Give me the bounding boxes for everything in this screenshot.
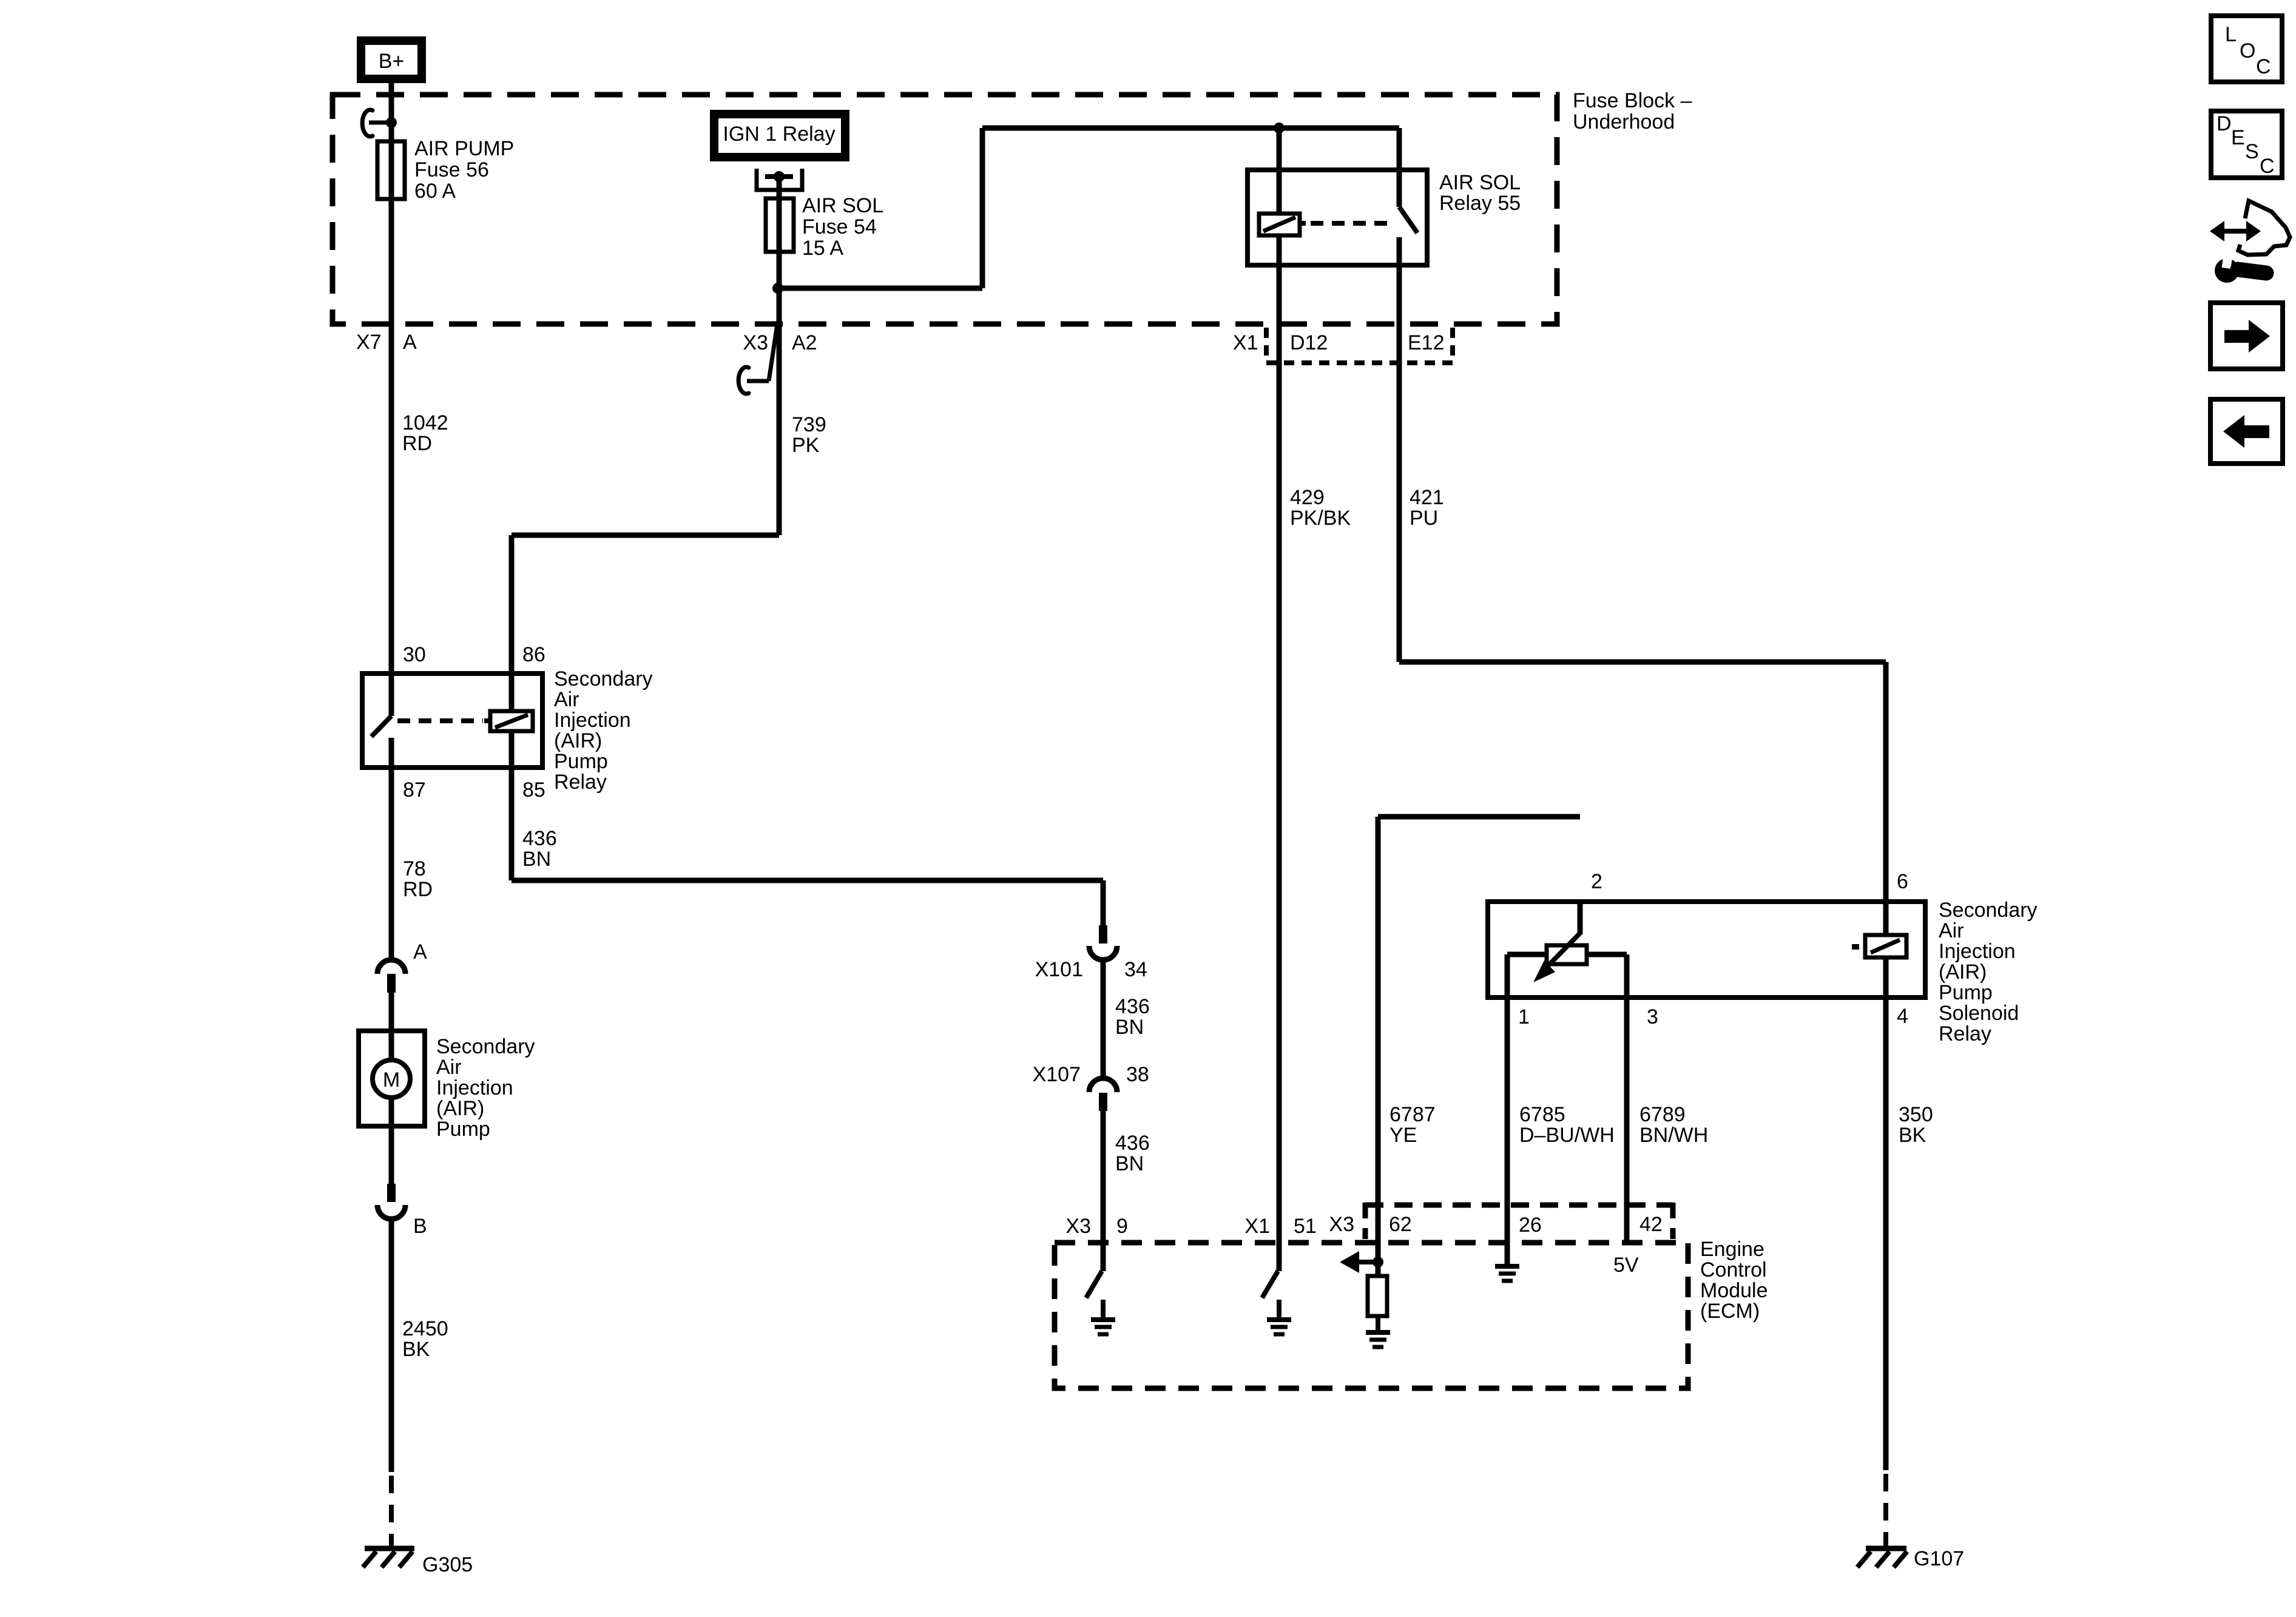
svg-text:38: 38 xyxy=(1126,1063,1149,1086)
wire fuse 54 junction right xyxy=(778,286,982,291)
ECM signal arrow at pin 62 xyxy=(1358,1260,1378,1264)
svg-text:Fuse 56: Fuse 56 xyxy=(414,158,489,181)
svg-text:D12: D12 xyxy=(1290,331,1328,354)
connector X101 male terminal xyxy=(1099,925,1107,944)
svg-text:Air: Air xyxy=(1939,919,1964,942)
svg-text:78: 78 xyxy=(403,857,426,880)
svg-text:Solenoid: Solenoid xyxy=(1939,1002,2019,1025)
wire 6787 YE across xyxy=(1378,814,1580,820)
relay K1 switch upper xyxy=(389,671,394,716)
svg-text:BN: BN xyxy=(1115,1152,1144,1175)
relay K2 coil right dash mark xyxy=(1852,944,1859,950)
solenoid arrowhead xyxy=(1533,960,1555,982)
svg-text:6: 6 xyxy=(1897,870,1908,893)
svg-text:D–BU/WH: D–BU/WH xyxy=(1519,1124,1615,1147)
svg-text:2: 2 xyxy=(1591,870,1602,893)
icon LOC box xyxy=(2211,16,2282,82)
wire connector A to pump motor xyxy=(389,993,394,1031)
wire 739 PK down from A2 xyxy=(777,288,782,535)
svg-text:S: S xyxy=(2245,140,2259,163)
IGN 1 relay terminal bracket xyxy=(757,169,802,190)
ground G107 xyxy=(1866,1546,1906,1551)
wire pin 3 horizontal xyxy=(1587,952,1627,957)
connector B female terminal xyxy=(377,1205,405,1219)
wire across to AIR SOL relay xyxy=(982,126,1399,131)
ECM connector X3 dashed box xyxy=(1363,1203,1368,1239)
wire down to relay 55 switch xyxy=(1397,128,1402,207)
wire 78 RD pin 87 down xyxy=(389,770,394,960)
svg-text:6785: 6785 xyxy=(1519,1103,1565,1126)
svg-text:X3: X3 xyxy=(1329,1213,1354,1236)
svg-text:51: 51 xyxy=(1294,1215,1317,1238)
wire down to relay pin 86 xyxy=(509,535,515,711)
svg-text:BK: BK xyxy=(1899,1124,1926,1147)
ECM pin 26 ground xyxy=(1495,1264,1519,1269)
svg-text:A: A xyxy=(413,940,427,964)
svg-text:Pump: Pump xyxy=(1939,981,1993,1004)
svg-text:3: 3 xyxy=(1647,1005,1658,1028)
icon diagnostic double arrow xyxy=(2221,229,2250,234)
wire 6785 D-BU/WH pin 1 down to ECM pin 26 xyxy=(1505,954,1510,1266)
wire riser up xyxy=(980,128,985,288)
ECM pin 62 node junction xyxy=(1373,1257,1383,1268)
svg-text:PK: PK xyxy=(792,434,820,457)
svg-text:YE: YE xyxy=(1389,1124,1417,1147)
connector X107 male terminal xyxy=(1099,1093,1107,1111)
wire pin 85 from coil down xyxy=(509,731,515,880)
svg-text:Injection: Injection xyxy=(436,1076,513,1099)
motor M1 Secondary Air Injection (AIR) Pump box xyxy=(359,1031,425,1126)
ground G305 xyxy=(365,1546,414,1551)
relay K2 Secondary Air Injection (AIR) Pump Solenoid Relay box xyxy=(1488,902,1925,998)
wire 436 BN between connectors xyxy=(1101,959,1106,1076)
svg-text:60 A: 60 A xyxy=(414,180,456,203)
fuse block - underhood dashed outline xyxy=(333,95,1557,324)
svg-text:(AIR): (AIR) xyxy=(1939,960,1987,984)
svg-text:Relay 55: Relay 55 xyxy=(1439,192,1521,215)
connector X101 female terminal xyxy=(1089,946,1117,960)
wire 350 BK down xyxy=(1883,998,1889,1470)
svg-text:X1: X1 xyxy=(1244,1215,1270,1238)
wire 2450 BK down xyxy=(389,1218,394,1472)
svg-text:E12: E12 xyxy=(1408,331,1445,354)
icon back arrow box xyxy=(2210,399,2283,464)
svg-text:85: 85 xyxy=(522,778,545,802)
svg-text:26: 26 xyxy=(1519,1214,1542,1237)
wire 350 BK dashed to ground xyxy=(1883,1474,1888,1548)
svg-text:15 A: 15 A xyxy=(802,237,843,260)
ECM pin 51 switch to ground xyxy=(1277,1243,1282,1271)
svg-text:D: D xyxy=(2217,112,2232,135)
wire 6789 BN/WH pin 3 down to ECM pin 42 xyxy=(1624,954,1630,1245)
svg-text:B: B xyxy=(413,1215,427,1238)
svg-text:436: 436 xyxy=(1115,995,1150,1018)
fuse F54 AIR SOL Fuse 54 15 A xyxy=(766,198,794,252)
wire pin 6 through coil xyxy=(1883,902,1889,935)
svg-text:Injection: Injection xyxy=(1939,940,2016,963)
svg-text:Pump: Pump xyxy=(436,1118,490,1141)
wire 421 PU across xyxy=(1399,660,1886,665)
relay 55 coil xyxy=(1259,214,1300,235)
solenoid arrow shaft xyxy=(1546,933,1580,968)
svg-text:436: 436 xyxy=(1115,1132,1150,1155)
svg-text:RD: RD xyxy=(403,878,433,901)
wire 436 BN down to ECM pin 9 xyxy=(1101,1111,1106,1243)
node junction at B+ feed xyxy=(386,117,397,128)
node junction below IGN 1 relay xyxy=(774,171,785,182)
svg-text:Secondary: Secondary xyxy=(554,667,653,690)
wire coil bottom down D12 to ECM pin 51 xyxy=(1277,235,1282,1243)
relay 55 switch lower contact / wire to E12 xyxy=(1397,237,1402,662)
svg-text:O: O xyxy=(2240,39,2255,62)
svg-text:Underhood: Underhood xyxy=(1573,110,1675,133)
wire 436 BN across to X101 xyxy=(512,878,1103,883)
svg-text:1: 1 xyxy=(1518,1005,1530,1028)
wire pin 86 into coil xyxy=(509,671,515,711)
wire 436 BN down from corner to X101 xyxy=(1101,880,1106,925)
svg-text:30: 30 xyxy=(403,643,426,666)
connector B male terminal xyxy=(387,1184,396,1202)
svg-text:A: A xyxy=(403,331,417,354)
relay K2 coil right xyxy=(1865,935,1906,957)
svg-text:X1: X1 xyxy=(1233,331,1258,354)
wire IGN relay to fuse 54 xyxy=(777,177,782,288)
svg-text:(ECM): (ECM) xyxy=(1700,1300,1760,1323)
svg-text:739: 739 xyxy=(792,413,826,436)
svg-text:436: 436 xyxy=(522,827,557,850)
fuse F56 AIR PUMP Fuse 56 60 A xyxy=(377,141,405,199)
svg-text:Air: Air xyxy=(436,1056,462,1079)
svg-text:5V: 5V xyxy=(1613,1254,1639,1277)
connector A female terminal xyxy=(377,960,405,974)
svg-text:Relay: Relay xyxy=(554,771,607,794)
svg-text:42: 42 xyxy=(1639,1213,1663,1236)
svg-text:X107: X107 xyxy=(1033,1063,1081,1086)
relay K1 switch blade xyxy=(371,716,391,737)
svg-text:BN/WH: BN/WH xyxy=(1639,1124,1708,1147)
svg-text:AIR PUMP: AIR PUMP xyxy=(414,137,514,160)
svg-text:X101: X101 xyxy=(1035,958,1083,981)
solenoid K2 coil left xyxy=(1547,945,1587,964)
svg-text:M: M xyxy=(383,1068,400,1092)
ECM resistor at pin 62 xyxy=(1368,1276,1387,1316)
svg-text:Pump: Pump xyxy=(554,750,608,773)
svg-text:1042: 1042 xyxy=(402,411,448,434)
ECM pin 62 ground xyxy=(1366,1330,1390,1335)
wire pin 2 into solenoid xyxy=(1578,902,1583,934)
svg-text:Module: Module xyxy=(1700,1279,1768,1302)
svg-text:6787: 6787 xyxy=(1389,1103,1436,1126)
svg-text:6789: 6789 xyxy=(1639,1103,1686,1126)
svg-text:2450: 2450 xyxy=(402,1317,448,1340)
clip hook at B+ feed xyxy=(362,110,373,137)
relay K1 coil xyxy=(490,711,533,731)
wire junction down to relay 55 coil xyxy=(1277,128,1282,214)
svg-text:(AIR): (AIR) xyxy=(554,729,602,752)
wire B+ down to relay pin 30 xyxy=(389,79,394,671)
svg-text:C: C xyxy=(2256,55,2271,78)
relay K1 linkage dashed xyxy=(397,718,483,723)
svg-text:BK: BK xyxy=(402,1338,430,1361)
relay K1 Secondary Air Injection (AIR) Pump Relay box xyxy=(362,673,542,768)
IGN 1 relay contact bar xyxy=(765,174,793,179)
svg-text:(AIR): (AIR) xyxy=(436,1097,484,1120)
relay 55 linkage dashed xyxy=(1300,221,1306,226)
svg-text:G107: G107 xyxy=(1914,1547,1964,1570)
svg-text:A2: A2 xyxy=(792,331,817,354)
svg-text:Injection: Injection xyxy=(554,709,631,732)
node junction below fuse 54 xyxy=(772,283,783,294)
relay 55 switch blade xyxy=(1399,207,1417,233)
connector X1 pins D12 E12 dashed box xyxy=(1266,328,1453,363)
svg-text:87: 87 xyxy=(403,778,426,802)
svg-text:Secondary: Secondary xyxy=(436,1035,535,1058)
svg-text:PU: PU xyxy=(1410,507,1438,530)
svg-text:Relay: Relay xyxy=(1939,1022,1991,1045)
svg-text:RD: RD xyxy=(402,432,432,455)
ECM pin 51 ground xyxy=(1267,1317,1291,1322)
svg-text:X3: X3 xyxy=(1065,1215,1091,1238)
svg-text:C: C xyxy=(2260,155,2275,178)
svg-text:Air: Air xyxy=(554,688,579,711)
relay K1 switch lower contact xyxy=(389,738,394,770)
connector X107 female terminal xyxy=(1089,1078,1117,1092)
node junction above AIR SOL relay coil xyxy=(1274,123,1285,133)
ECM pin 9 ground xyxy=(1091,1317,1115,1322)
icon forward arrow box xyxy=(2210,303,2283,369)
svg-text:350: 350 xyxy=(1899,1103,1933,1126)
svg-text:BN: BN xyxy=(522,848,551,871)
wire pump to connector B xyxy=(389,1126,394,1184)
svg-text:X3: X3 xyxy=(743,331,768,354)
svg-text:IGN 1 Relay: IGN 1 Relay xyxy=(723,123,835,146)
svg-text:Engine: Engine xyxy=(1700,1238,1764,1261)
relay K55 AIR SOL Relay 55 box xyxy=(1248,170,1427,265)
wire 421 PU down to solenoid relay pin 6 xyxy=(1883,662,1889,902)
ECM pin 9 switch to ground xyxy=(1101,1243,1106,1271)
connector terminal at A2 xyxy=(769,324,777,381)
svg-text:421: 421 xyxy=(1410,486,1444,509)
wire pin 1 horizontal xyxy=(1507,952,1547,957)
svg-text:86: 86 xyxy=(522,643,545,666)
svg-text:BN: BN xyxy=(1115,1016,1144,1039)
ECM Engine Control Module dashed outline xyxy=(1055,1243,1688,1388)
svg-text:L: L xyxy=(2225,23,2237,46)
icon DESC box xyxy=(2211,111,2282,178)
svg-text:4: 4 xyxy=(1897,1005,1908,1028)
wire 739 PK across xyxy=(512,533,779,538)
svg-text:PK/BK: PK/BK xyxy=(1290,507,1351,530)
svg-text:B+: B+ xyxy=(379,50,405,73)
icon diagnostic wrench xyxy=(2215,258,2239,283)
connector A male terminal xyxy=(387,974,396,993)
icon diagnostic hand outline xyxy=(2238,201,2290,255)
wire 2450 BK dashed to ground xyxy=(389,1476,394,1548)
svg-text:Fuse 54: Fuse 54 xyxy=(802,215,877,238)
svg-text:G305: G305 xyxy=(422,1553,473,1576)
svg-text:Secondary: Secondary xyxy=(1939,899,2038,922)
svg-text:429: 429 xyxy=(1290,486,1325,509)
svg-text:34: 34 xyxy=(1124,958,1147,981)
svg-text:62: 62 xyxy=(1389,1213,1412,1236)
IGN 1 Relay box xyxy=(714,114,845,157)
svg-text:9: 9 xyxy=(1116,1215,1128,1238)
svg-text:X7: X7 xyxy=(356,331,382,354)
svg-text:Control: Control xyxy=(1700,1258,1767,1281)
wire 6787 YE riser xyxy=(1376,817,1381,1276)
svg-text:E: E xyxy=(2231,126,2245,149)
B+ terminal box xyxy=(361,41,422,79)
svg-text:Fuse Block –: Fuse Block – xyxy=(1573,89,1692,112)
svg-text:AIR SOL: AIR SOL xyxy=(802,194,883,217)
motor M1 circle xyxy=(389,1031,394,1060)
svg-text:AIR SOL: AIR SOL xyxy=(1439,171,1521,194)
